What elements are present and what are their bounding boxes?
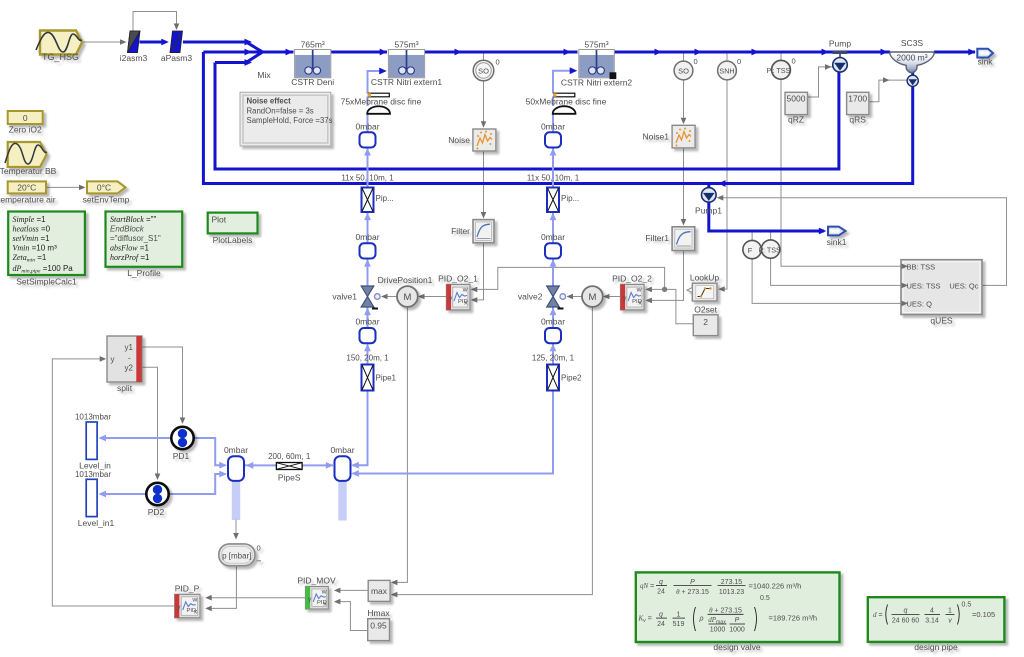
svg-text:=1040.226 m³/h: =1040.226 m³/h [749, 582, 802, 591]
svg-text:temperature air: temperature air [0, 194, 56, 204]
wire split y1 to PD1 [142, 347, 183, 420]
svg-text:PID: PID [632, 299, 642, 305]
svg-text:-: - [128, 354, 131, 363]
valve valve1 [332, 286, 380, 309]
svg-text:DrivePosition1: DrivePosition1 [378, 275, 433, 285]
svg-text:75xMebrane disc fine: 75xMebrane disc fine [341, 97, 422, 107]
block Filter [451, 220, 494, 243]
svg-text:O2set: O2set [694, 304, 717, 314]
pump Pump2 [907, 75, 918, 86]
wire PID_MOV y to PID_P w input [207, 597, 306, 599]
motor DrivePosition1 [378, 275, 433, 307]
svg-text:q: q [659, 579, 663, 586]
membrane 50x chain2 [526, 93, 607, 114]
source TG_HSG [36, 31, 82, 63]
wire Hmax to PID_MOV x input [336, 602, 368, 631]
svg-text:273.15: 273.15 [721, 579, 743, 586]
constant qRS [847, 92, 869, 124]
block Noise1 [643, 125, 696, 148]
blower PD1 [171, 427, 193, 461]
wire air chain2 membrane to CSTR Nitri extern2 [553, 71, 574, 94]
wire qRS to Pump2 [869, 80, 907, 102]
converter aPasm3 [161, 31, 192, 63]
wire Noise to Filter [483, 152, 485, 216]
svg-text:1000: 1000 [729, 627, 745, 634]
svg-text:Pipe2: Pipe2 [561, 374, 582, 383]
svg-text:11x 50, 10m, 1: 11x 50, 10m, 1 [341, 174, 394, 183]
wire Filter1 to PID_O2_2 x input [648, 251, 684, 301]
svg-text:y2: y2 [125, 364, 134, 373]
svg-text:0mbar: 0mbar [541, 121, 565, 131]
wire Pump1 stub [707, 184, 710, 190]
controller PID_P [175, 584, 200, 618]
svg-text:P: P [690, 579, 695, 586]
svg-text:ρ: ρ [699, 616, 704, 623]
svg-text:4: 4 [930, 608, 934, 615]
pump Pump1 [695, 188, 722, 216]
svg-text:0: 0 [23, 113, 28, 123]
wire SC3S to sink [934, 51, 975, 54]
constant qRZ [785, 92, 808, 124]
sensor SNH [718, 57, 742, 80]
svg-text:150, 20m, 1: 150, 20m, 1 [346, 354, 389, 363]
display p mbar [219, 544, 261, 566]
svg-text:y1: y1 [125, 343, 134, 352]
block Filter1 [645, 227, 694, 251]
wire return line B Pump2 to Mix [203, 52, 912, 184]
svg-text:0: 0 [792, 57, 796, 66]
svg-text:575m³: 575m³ [394, 40, 418, 50]
manifold2 0mbar [330, 445, 354, 481]
svg-text:0: 0 [257, 544, 261, 553]
pipe riser block chain2 [547, 188, 579, 213]
svg-text:0mbar: 0mbar [355, 121, 379, 131]
svg-text:Pip...: Pip... [561, 194, 579, 203]
boundary Level_in [75, 413, 111, 471]
svg-text:v: v [948, 618, 952, 625]
sink [977, 49, 993, 67]
wire TG_HSG to i2asm3 [82, 41, 122, 43]
svg-text:Filter: Filter [451, 226, 470, 236]
svg-text:absFlow =1: absFlow =1 [110, 244, 149, 253]
wire PID_O2_2 y to DrivePosition2 [605, 296, 621, 298]
svg-text:PID_O2_1: PID_O2_1 [438, 274, 478, 284]
CSTR Deni [291, 40, 334, 88]
svg-text:Filter1: Filter1 [645, 233, 669, 243]
CSTR Nitri extern2 [561, 40, 633, 88]
wire max to PID_MOV w input [336, 589, 368, 591]
valve chain2 0mbar upper [541, 232, 565, 259]
svg-text:519: 519 [673, 621, 685, 628]
valve chain1 0mbar upper [355, 232, 379, 259]
motor DrivePosition2 [582, 286, 603, 307]
svg-text:200, 60m, 1: 200, 60m, 1 [268, 452, 311, 461]
svg-text:valve1: valve1 [332, 292, 357, 302]
wire DrivePosition2 to max [393, 307, 592, 595]
svg-text:θ + 273.15: θ + 273.15 [676, 588, 709, 596]
svg-text:SC3S: SC3S [901, 38, 924, 48]
svg-text:0mbar: 0mbar [355, 232, 379, 242]
svg-text:w: w [191, 596, 197, 603]
wire temperature air to setEnvTemp [46, 186, 79, 188]
svg-text:SNH: SNH [719, 67, 734, 76]
svg-text:24: 24 [657, 589, 665, 596]
svg-text:UES: TSS: UES: TSS [907, 281, 941, 290]
wire p mbar to PID_P x input [207, 566, 236, 608]
svg-text:2: 2 [703, 317, 708, 327]
boundary Level_in1 [75, 470, 114, 528]
valve chain1 0mbar top [355, 121, 379, 147]
wire PD1 to manifold1 [194, 438, 226, 465]
function max [368, 580, 390, 601]
svg-text:Zero iO2: Zero iO2 [9, 125, 42, 135]
svg-text:SO: SO [478, 67, 489, 76]
controller PID_MOV [297, 576, 336, 610]
svg-text:M: M [588, 292, 596, 303]
wire air chain2 segments [552, 97, 554, 107]
wire air chain1 membrane to CSTR Nitri extern1 [368, 71, 384, 94]
svg-text:0.5: 0.5 [962, 602, 972, 609]
CSTR Nitri extern1 [371, 40, 443, 88]
svg-text:0mbar: 0mbar [224, 445, 248, 455]
svg-text:50xMebrane disc fine: 50xMebrane disc fine [526, 97, 607, 107]
wire Pipe1 to manifold2 [353, 391, 368, 466]
wire SNH to LookUp [726, 54, 728, 62]
svg-text:1: 1 [948, 608, 952, 615]
svg-text:PID: PID [317, 600, 327, 606]
svg-text:UES: Q: UES: Q [907, 299, 933, 308]
svg-text:M: M [403, 292, 411, 303]
svg-text:CSTR Nitri extern1: CSTR Nitri extern1 [371, 77, 443, 87]
svg-text:qRZ: qRZ [788, 115, 804, 125]
svg-text:Hmax: Hmax [367, 608, 390, 618]
wire Pump2 stub [911, 70, 914, 86]
sensor TSS [767, 57, 796, 80]
converter i2asm3 [120, 31, 148, 63]
wire air chain1 segments [367, 97, 369, 107]
svg-text:0°C: 0°C [97, 182, 111, 192]
svg-text:SampleHold, Force =37s: SampleHold, Force =37s [247, 116, 333, 125]
wire CSTR Deni to CSTR Nitri extern1 [331, 51, 387, 54]
svg-text:0.5: 0.5 [760, 595, 770, 602]
pipe Pipe1 [346, 354, 396, 391]
svg-text:setEnvTemp: setEnvTemp [83, 195, 130, 205]
svg-text:qN =: qN = [640, 582, 654, 590]
svg-text:1013mbar: 1013mbar [75, 413, 111, 422]
svg-text:PD1: PD1 [173, 451, 190, 461]
wire PID_O2_1 y to DrivePosition1 [420, 296, 446, 298]
svg-text:SetSimpleCalc1: SetSimpleCalc1 [16, 277, 77, 287]
svg-text:w: w [321, 589, 327, 596]
svg-text:=189.726 m³/h: =189.726 m³/h [769, 614, 818, 623]
svg-text:24: 24 [657, 621, 665, 628]
svg-text:PID: PID [458, 299, 468, 305]
controller PID_O2_1 [438, 274, 478, 310]
svg-text:Mix: Mix [257, 70, 271, 80]
svg-text:q: q [904, 608, 908, 615]
formula box design pipe [868, 597, 1005, 652]
svg-text:w: w [462, 287, 468, 294]
svg-text:0: 0 [496, 58, 500, 67]
pipe PipeS [268, 452, 311, 483]
svg-text:p [mbar]: p [mbar] [222, 551, 251, 560]
wire return line A Pump to Mix [215, 63, 839, 170]
svg-text:1700: 1700 [848, 94, 867, 104]
sensor F [743, 240, 761, 258]
sensor TSS2 [759, 240, 782, 258]
svg-text:0mbar: 0mbar [541, 317, 565, 327]
wire TSS to qUES BB:TSS [780, 54, 782, 61]
wire Mix bottom branch [215, 52, 263, 63]
parameter box SetSimpleCalc1 [8, 212, 85, 287]
svg-text:CSTR Nitri extern2: CSTR Nitri extern2 [561, 78, 633, 88]
block Noise [448, 129, 496, 151]
svg-text:setVmin =1: setVmin =1 [13, 234, 51, 243]
svg-text:horzProf =1: horzProf =1 [110, 253, 150, 262]
svg-text:w: w [636, 287, 642, 294]
wire split y2 to PD2 [142, 367, 158, 475]
svg-text:: TSS: : TSS [763, 245, 781, 254]
svg-text:CSTR Deni: CSTR Deni [291, 77, 334, 87]
wire F to qUES UES:Q [751, 231, 753, 241]
svg-text:0.95: 0.95 [370, 621, 387, 631]
clarifier SC3S [890, 38, 934, 73]
svg-text:20°C: 20°C [17, 182, 36, 192]
svg-text:=0.105: =0.105 [972, 610, 995, 619]
svg-text:Plot: Plot [212, 215, 227, 225]
parameter box L_Profile [106, 212, 183, 279]
annotation Noise effect [240, 92, 333, 146]
svg-text:q: q [659, 611, 663, 618]
wire DrivePosition2 to valve2 [568, 296, 582, 298]
lookup table LookUp [687, 273, 719, 301]
svg-text:0mbar: 0mbar [330, 445, 354, 455]
pump Pump [829, 39, 851, 73]
svg-text:LookUp: LookUp [690, 273, 720, 283]
svg-text:d =: d = [873, 611, 883, 619]
svg-text:11x 50, 10m, 1: 11x 50, 10m, 1 [527, 174, 580, 183]
svg-text:L_Profile: L_Profile [127, 268, 161, 278]
svg-text:i2asm3: i2asm3 [120, 53, 148, 63]
svg-text:PID: PID [187, 608, 197, 614]
svg-text:1: 1 [677, 611, 681, 618]
svg-text:: TSS: : TSS [773, 66, 791, 75]
svg-text:PipeS: PipeS [278, 473, 301, 483]
svg-text:design valve: design valve [713, 642, 761, 652]
wire feedback i2asm3 to aPasm3 [133, 12, 177, 32]
pipe riser block chain1 [362, 188, 394, 213]
svg-text:P: P [767, 66, 772, 75]
svg-text:Level_in1: Level_in1 [78, 518, 115, 528]
sink setEnvTemp [83, 181, 130, 204]
svg-text:SO: SO [678, 67, 689, 76]
wire PipeS to manifold2 [302, 464, 333, 466]
svg-text:2000 m³: 2000 m³ [896, 53, 927, 63]
constant temperature air [0, 181, 56, 204]
svg-text:PID_P: PID_P [175, 584, 200, 594]
svg-text:0: 0 [694, 57, 698, 66]
svg-text:="diffusor_S1": ="diffusor_S1" [110, 234, 161, 243]
svg-text:PlotLabels: PlotLabels [213, 235, 253, 245]
svg-text:Pipe1: Pipe1 [376, 374, 397, 383]
wire DrivePosition1 to max [393, 307, 407, 582]
svg-text:aPasm3: aPasm3 [161, 53, 192, 63]
blower PD2 [146, 483, 168, 517]
wire DrivePosition1 to valve1 [383, 296, 398, 298]
demux split [107, 336, 142, 393]
svg-text:1000: 1000 [710, 627, 726, 634]
parameter box PlotLabels [208, 213, 258, 245]
wire PD2 to manifold1 [169, 474, 226, 494]
wire PID_P y to split [52, 359, 174, 606]
svg-text:0mbar: 0mbar [355, 317, 379, 327]
svg-text:Temperatur BB: Temperatur BB [0, 166, 57, 176]
svg-text:BB: TSS: BB: TSS [907, 262, 936, 271]
svg-text:qUES: qUES [930, 316, 953, 326]
svg-text:Noise: Noise [448, 135, 470, 145]
svg-text:max: max [371, 586, 388, 596]
svg-text:StartBlock ="": StartBlock ="" [110, 215, 157, 224]
manifold1 0mbar [224, 445, 248, 481]
valve chain2 0mbar top [541, 121, 565, 147]
svg-text:valve2: valve2 [518, 292, 543, 302]
wire aPasm3 to Mix top branch [183, 42, 263, 52]
source Temperatur BB [0, 142, 57, 176]
wire setpoint to PID_O2_1 w input [474, 267, 665, 289]
svg-text:sink1: sink1 [827, 237, 847, 247]
svg-text:UES: Qc: UES: Qc [949, 281, 978, 290]
svg-text:sink: sink [977, 57, 993, 67]
svg-text:P: P [735, 617, 740, 624]
formula box design valve [636, 572, 840, 652]
wire junction to PID_O2_2 w input [648, 288, 665, 290]
wire Mix middle branch [203, 51, 262, 54]
wire manifold to p mbar [235, 518, 237, 536]
svg-text:24 60 60: 24 60 60 [892, 618, 919, 625]
constant Zero iO2 [8, 111, 43, 135]
pipe Pipe2 [532, 354, 582, 391]
svg-text:125, 20m, 1: 125, 20m, 1 [532, 354, 575, 363]
wire qUES Qc to Pump1 [720, 198, 1007, 286]
svg-text:575m³: 575m³ [584, 40, 608, 50]
svg-text:Simple =1: Simple =1 [13, 215, 47, 224]
svg-text:EndBlock: EndBlock [110, 225, 145, 234]
svg-text:PID_MOV: PID_MOV [297, 576, 336, 586]
wire PD2 to Level_in1 [100, 493, 146, 495]
wire Pipe2 to manifold2 [353, 391, 554, 474]
svg-text:0mbar: 0mbar [541, 232, 565, 242]
svg-text:1013mbar: 1013mbar [75, 470, 111, 479]
wire i2asm3 to aPasm3 [140, 41, 167, 44]
manifold2 tail band [338, 481, 346, 521]
node junction dot [662, 287, 667, 292]
wire SO1 to Noise1 [683, 54, 685, 62]
svg-text:RandOn=false = 3s: RandOn=false = 3s [247, 107, 314, 116]
svg-text:θ + 273.15: θ + 273.15 [709, 606, 742, 614]
wire PipeS to manifold1 [244, 464, 276, 466]
wire O2set to junction [665, 289, 694, 323]
svg-text:Pip...: Pip... [376, 194, 394, 203]
wire SO to Noise [483, 54, 485, 61]
svg-text:TG_HSG: TG_HSG [42, 52, 79, 62]
svg-text:heatloss =0: heatloss =0 [13, 225, 51, 234]
sensor SO [473, 58, 499, 81]
svg-text:PD2: PD2 [148, 507, 165, 517]
manifold1 tail band [232, 481, 240, 520]
svg-text:Pump1: Pump1 [695, 206, 722, 216]
svg-text:split: split [117, 383, 133, 393]
sink sink1 [827, 227, 847, 247]
valve chain1 0mbar lower [355, 317, 379, 344]
sensor SO1 [674, 57, 698, 80]
svg-text:Level_in: Level_in [79, 461, 111, 471]
wire Mix to CSTR Deni [263, 51, 294, 54]
svg-text:765m³: 765m³ [301, 40, 325, 50]
function block qUES [901, 260, 982, 326]
svg-text:0: 0 [737, 57, 741, 66]
svg-text:Vmin =10 m³: Vmin =10 m³ [13, 244, 58, 253]
wire Filter to PID_O2_1 x input [474, 243, 484, 300]
wire PD1 to Level_in [100, 437, 171, 439]
wire CSTR Nitri extern1 to CSTR Nitri extern2 [425, 51, 578, 54]
svg-text:design pipe: design pipe [914, 642, 958, 652]
wire qRZ to Pump [808, 67, 833, 97]
wire CSTR Nitri extern2 to SC3S [614, 51, 890, 54]
svg-text:qRS: qRS [849, 115, 866, 125]
wire Pump1 to sink1 [709, 201, 824, 231]
svg-text:PID_O2_2: PID_O2_2 [612, 274, 652, 284]
svg-text:3.14: 3.14 [925, 618, 939, 625]
wire TSS2 to qUES UES:TSS [770, 231, 772, 240]
constant O2set [693, 304, 718, 335]
controller PID_O2_2 [612, 274, 652, 310]
svg-text:1013.23: 1013.23 [719, 589, 744, 596]
svg-text:5000: 5000 [787, 94, 806, 104]
wire Noise1 to Filter1 [683, 149, 685, 223]
constant Hmax [367, 608, 390, 641]
svg-text:Pump: Pump [829, 39, 851, 49]
svg-text:Noise effect: Noise effect [247, 97, 292, 106]
valve chain2 0mbar lower [541, 317, 565, 344]
membrane 75x chain1 [341, 93, 422, 114]
valve valve2 [518, 286, 566, 309]
svg-text:F: F [748, 246, 753, 255]
svg-text:Noise1: Noise1 [643, 132, 670, 142]
svg-text:y: y [111, 355, 115, 364]
